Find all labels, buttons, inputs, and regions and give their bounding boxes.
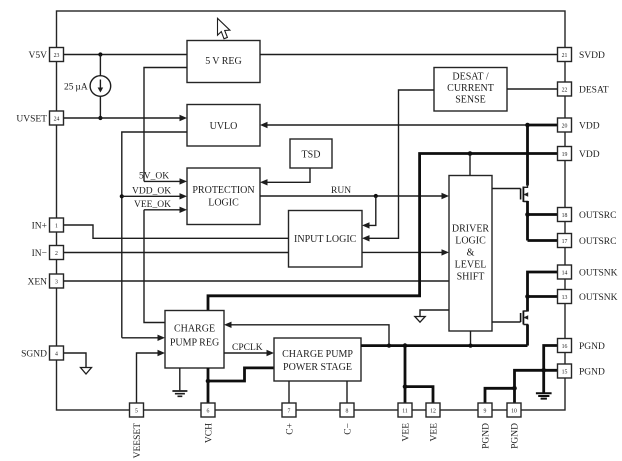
outer IC boundary bbox=[57, 11, 566, 410]
svg-text:LOGIC: LOGIC bbox=[208, 198, 239, 209]
svg-text:CPCLK: CPCLK bbox=[232, 343, 263, 353]
svg-text:TSD: TSD bbox=[302, 150, 321, 161]
svg-text:OUTSNK: OUTSNK bbox=[579, 269, 618, 279]
svg-text:18: 18 bbox=[562, 213, 568, 219]
node VDD19 junction bbox=[468, 151, 473, 156]
wire 5V_OK into protection logic bbox=[144, 178, 187, 184]
svg-text:POWER STAGE: POWER STAGE bbox=[283, 362, 352, 373]
svg-text:DESAT /: DESAT / bbox=[452, 72, 488, 83]
wire UVLO_OK arrow into charge pump reg bbox=[122, 335, 165, 341]
svg-text:5: 5 bbox=[135, 409, 138, 415]
svg-text:CURRENT: CURRENT bbox=[447, 83, 494, 94]
transistor Q1 source follower bbox=[492, 184, 528, 203]
svg-text:25 µA: 25 µA bbox=[64, 83, 88, 93]
svg-text:8: 8 bbox=[346, 409, 349, 415]
svg-text:3: 3 bbox=[55, 280, 58, 286]
svg-text:PROTECTION: PROTECTION bbox=[192, 185, 254, 196]
wire input logic output to driver bbox=[362, 249, 449, 255]
pin 16 PGND bbox=[558, 339, 606, 353]
pin 24 UVSET bbox=[16, 111, 63, 125]
wire driver bottom to VEE rail bbox=[470, 331, 472, 346]
svg-text:RUN: RUN bbox=[331, 186, 351, 196]
svg-text:CHARGE: CHARGE bbox=[174, 324, 215, 335]
pin 3 XEN bbox=[27, 274, 63, 288]
svg-text:VDD_OK: VDD_OK bbox=[132, 186, 171, 196]
node OUTSNK junction bbox=[525, 294, 530, 299]
wire 5V REG to 5V_OK bbox=[144, 68, 187, 182]
svg-text:VCH: VCH bbox=[205, 423, 215, 443]
pin 8 C- bbox=[340, 403, 354, 435]
svg-text:OUTSNK: OUTSNK bbox=[579, 293, 618, 303]
pin 9 PGND bbox=[478, 403, 492, 449]
ground driver open triangle bbox=[415, 317, 425, 323]
node PGND junction bbox=[512, 386, 517, 391]
block UVLO bbox=[187, 105, 260, 147]
wire VDD pin20 bold bbox=[528, 125, 558, 186]
svg-text:5V_OK: 5V_OK bbox=[139, 172, 169, 182]
node OUTSRC junction bbox=[525, 212, 530, 217]
svg-text:22: 22 bbox=[562, 88, 568, 94]
wire Q1 source to OUTSRC pins bold bbox=[528, 201, 558, 241]
svg-text:9: 9 bbox=[484, 409, 487, 415]
node VDD_OK junction bbox=[120, 194, 124, 198]
node VDD20 junction bbox=[525, 123, 530, 128]
svg-text:OUTSRC: OUTSRC bbox=[579, 237, 616, 247]
wire bold to power stage input bbox=[208, 368, 274, 381]
transistor Q2 sink bbox=[492, 311, 528, 327]
svg-text:IN+: IN+ bbox=[32, 222, 47, 232]
wire C- pin8 bbox=[346, 381, 348, 403]
wire Q2 source to VEE rail bold bbox=[526, 325, 529, 346]
pin 1 IN+ bbox=[32, 218, 64, 232]
svg-text:VEESET: VEESET bbox=[133, 423, 143, 459]
block CHARGE PUMP REG bbox=[165, 311, 224, 369]
svg-text:14: 14 bbox=[562, 271, 568, 277]
wire feedback from VEE rail into charge pump reg bbox=[224, 322, 389, 346]
wire UVSET to UVLO bbox=[64, 115, 188, 121]
node VEE12 junction bbox=[403, 384, 408, 389]
svg-text:17: 17 bbox=[562, 239, 568, 245]
wire DESAT block to input logic bbox=[362, 90, 434, 242]
svg-text:23: 23 bbox=[54, 53, 60, 59]
svg-text:VDD: VDD bbox=[579, 150, 600, 160]
svg-text:&: & bbox=[467, 248, 475, 259]
pin 21 SVDD bbox=[558, 48, 606, 62]
pin 6 VCH bbox=[201, 403, 215, 443]
svg-text:LEVEL: LEVEL bbox=[455, 260, 487, 271]
pin 17 OUTSRC bbox=[558, 234, 617, 248]
svg-text:16: 16 bbox=[562, 344, 568, 350]
pin 7 C+ bbox=[282, 403, 296, 435]
svg-text:6: 6 bbox=[207, 409, 210, 415]
svg-text:2: 2 bbox=[55, 251, 58, 257]
wire RUN protection to driver bbox=[260, 193, 449, 199]
wire VEE pins bold bbox=[405, 346, 433, 403]
svg-text:C+: C+ bbox=[286, 423, 296, 435]
svg-text:VEE_OK: VEE_OK bbox=[134, 200, 171, 210]
pin 19 VDD bbox=[558, 147, 600, 161]
ground SGND open triangle bbox=[81, 368, 92, 375]
svg-text:13: 13 bbox=[562, 295, 568, 301]
pin 15 PGND bbox=[558, 364, 606, 378]
svg-text:5 V REG: 5 V REG bbox=[205, 56, 242, 67]
svg-text:19: 19 bbox=[562, 152, 568, 158]
wire DESAT block to DESAT pin bbox=[507, 88, 558, 90]
wire OUTSNK pins bold bbox=[528, 272, 558, 312]
svg-text:DRIVER: DRIVER bbox=[452, 224, 490, 235]
node UVSET junction bbox=[98, 116, 102, 120]
pin 20 VDD bbox=[558, 118, 600, 132]
svg-text:PGND: PGND bbox=[579, 342, 605, 352]
current source I1 25uA bbox=[90, 55, 111, 119]
pin 13 OUTSNK bbox=[558, 290, 618, 304]
svg-text:C−: C− bbox=[344, 423, 354, 435]
wire PGND pin16 bold to earth bbox=[544, 346, 558, 393]
node VCH junction bbox=[206, 379, 211, 384]
block TSD bbox=[290, 139, 332, 168]
svg-text:INPUT LOGIC: INPUT LOGIC bbox=[294, 234, 357, 245]
wire SGND to ground bbox=[64, 353, 87, 367]
wire VEESET into charge pump reg bbox=[137, 350, 166, 403]
svg-text:10: 10 bbox=[511, 409, 517, 415]
pin 14 OUTSNK bbox=[558, 265, 618, 279]
svg-text:DESAT: DESAT bbox=[579, 86, 609, 96]
pin 12 VEE bbox=[426, 403, 440, 441]
wire CPCLK to power stage bbox=[224, 350, 274, 356]
pin 10 PGND bbox=[507, 403, 521, 449]
wire V5V to 5V REG bbox=[64, 54, 188, 56]
svg-text:SGND: SGND bbox=[21, 350, 47, 360]
node VEE rail junction bbox=[403, 343, 408, 348]
svg-text:V5V: V5V bbox=[29, 51, 48, 61]
wire PGND pin15 bold to pins 9/10 bbox=[485, 370, 558, 403]
block PROTECTION LOGIC U3 bbox=[187, 168, 260, 225]
mouse cursor bbox=[218, 18, 230, 39]
svg-text:IN−: IN− bbox=[32, 249, 47, 259]
wire driver top feed bbox=[469, 154, 471, 176]
wire 5V REG output to SVDD pin bbox=[260, 54, 558, 56]
wire UVLO output down-left bbox=[122, 132, 187, 338]
wire VEE_OK from charge pump reg bbox=[144, 210, 165, 323]
pin 4 SGND bbox=[21, 346, 63, 360]
svg-text:UVSET: UVSET bbox=[16, 115, 47, 125]
svg-text:15: 15 bbox=[562, 370, 568, 376]
pin 23 V5V bbox=[29, 48, 64, 62]
svg-text:PGND: PGND bbox=[579, 368, 605, 378]
svg-text:VEE: VEE bbox=[402, 423, 412, 442]
wire VDD pin20 to UVLO (arrow left) bbox=[260, 122, 528, 128]
svg-text:UVLO: UVLO bbox=[210, 121, 238, 132]
wire VCH bold from charge pump reg bbox=[207, 368, 210, 403]
wire C+ pin7 bbox=[288, 381, 290, 403]
svg-text:SHIFT: SHIFT bbox=[457, 272, 485, 283]
svg-text:CHARGE PUMP: CHARGE PUMP bbox=[282, 349, 353, 360]
svg-text:VEE: VEE bbox=[430, 423, 440, 442]
svg-text:11: 11 bbox=[402, 409, 408, 415]
wire IN+ to input logic bbox=[64, 225, 289, 238]
node RUN junction bbox=[374, 194, 378, 198]
wire VDD_OK into protection logic bbox=[122, 193, 187, 199]
block 5V REG bbox=[187, 41, 260, 83]
node V5V junction bbox=[98, 52, 102, 56]
svg-text:7: 7 bbox=[288, 409, 291, 415]
svg-text:21: 21 bbox=[562, 53, 568, 59]
ground charge pump reg earth bbox=[172, 368, 187, 396]
svg-text:LOGIC: LOGIC bbox=[455, 236, 486, 247]
svg-text:PGND: PGND bbox=[511, 423, 521, 449]
svg-text:SENSE: SENSE bbox=[455, 95, 486, 106]
svg-text:PUMP REG: PUMP REG bbox=[170, 338, 219, 349]
ground power earth bbox=[536, 393, 552, 398]
pin 22 DESAT bbox=[558, 82, 609, 96]
wire XEN to driver bbox=[64, 280, 450, 282]
node feedback junction bbox=[387, 344, 391, 348]
svg-text:20: 20 bbox=[562, 124, 568, 130]
block DRIVER LOGIC & LEVEL SHIFT bbox=[449, 176, 492, 332]
wire VDD pin19 bold rail to charge pump reg bbox=[208, 154, 558, 311]
svg-text:OUTSRC: OUTSRC bbox=[579, 211, 616, 221]
block DESAT / CURRENT SENSE bbox=[434, 68, 507, 112]
pin 2 IN- bbox=[32, 246, 64, 260]
pin 18 OUTSRC bbox=[558, 208, 617, 222]
wire IN- to input logic bbox=[64, 252, 289, 254]
svg-text:VDD: VDD bbox=[579, 122, 600, 132]
svg-text:SVDD: SVDD bbox=[579, 51, 605, 61]
svg-text:PGND: PGND bbox=[482, 423, 492, 449]
block CHARGE PUMP POWER STAGE bbox=[274, 338, 361, 381]
svg-text:12: 12 bbox=[430, 409, 436, 415]
wire RUN branch to input logic bbox=[362, 196, 376, 229]
wire driver stub to open ground bbox=[420, 310, 449, 316]
wire TSD to protection logic bbox=[260, 168, 310, 186]
wire VEE rail bold bbox=[361, 344, 528, 347]
block INPUT LOGIC bbox=[289, 211, 363, 268]
pin 11 VEE bbox=[398, 403, 412, 441]
node PGND16 junction bbox=[541, 368, 546, 373]
svg-text:24: 24 bbox=[54, 117, 60, 123]
svg-text:1: 1 bbox=[55, 224, 58, 230]
node driver VEE junction bbox=[468, 344, 472, 348]
svg-text:4: 4 bbox=[55, 352, 58, 358]
wire VEE_OK into protection logic bbox=[144, 207, 187, 213]
pin 5 VEESET bbox=[130, 403, 144, 458]
svg-text:XEN: XEN bbox=[27, 278, 47, 288]
